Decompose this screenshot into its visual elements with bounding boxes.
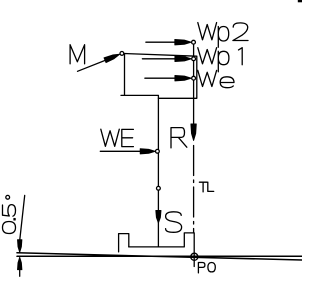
label Wp1 (198, 48, 242, 72)
arrow Wp2 shaft (146, 41, 188, 43)
mast (vertical line through arrow targets) (193, 42, 195, 127)
box (instrument body) (121, 53, 197, 98)
arrow We head (175, 76, 192, 81)
label P0 (198, 263, 215, 273)
joint circle on rod (157, 186, 161, 190)
dimension arrow up (18, 257, 22, 270)
TL dash-dot line (193, 146, 195, 234)
node circle WE on rod (156, 149, 160, 153)
label R (171, 128, 187, 148)
trolley bar (129, 246, 185, 248)
label WE (101, 129, 134, 146)
arrow Wp1 head (175, 56, 192, 61)
node circle M (box corner) (120, 52, 124, 56)
node circle Wp1 (192, 57, 196, 61)
arrow Wp2 head (175, 40, 192, 45)
arrow WE head (140, 149, 155, 154)
point P0 circle (191, 253, 198, 260)
tilted rail line (0.5 deg) (17, 253, 302, 260)
label TL (199, 182, 213, 192)
arrow S head (down, on rod) (156, 211, 161, 224)
ground line (horizontal reference) (17, 255, 302, 257)
trolley right foot (184, 233, 194, 267)
node circle Wp2 (192, 40, 196, 44)
label S (166, 212, 182, 233)
rod (vertical measuring rod) (157, 98, 159, 247)
dimension tail line (19, 269, 21, 277)
node circle We (192, 76, 196, 80)
arrow We shaft (145, 77, 188, 79)
corner mark top right (298, 0, 302, 2)
arrow WE shaft (100, 150, 152, 152)
trolley left foot (119, 234, 129, 252)
label We (198, 70, 234, 87)
dimension arrow down (18, 240, 22, 253)
label 0.5deg (rotated) (3, 195, 16, 233)
arrow M head (104, 54, 120, 62)
arrow R head (down) (191, 124, 196, 141)
arrow M shaft (78, 56, 117, 71)
label M (70, 45, 85, 64)
dimension leader line (20, 195, 25, 240)
label Wp2 (198, 23, 248, 48)
arrow Wp1 shaft (142, 58, 187, 60)
